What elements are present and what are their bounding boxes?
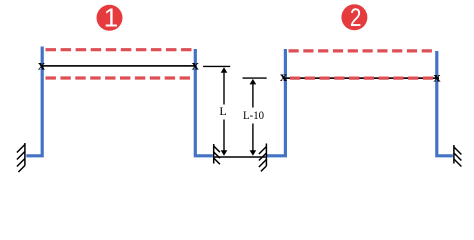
- wire at height L-10 (structure 2): [283, 77, 439, 79]
- svg-text:x: x: [38, 58, 45, 73]
- dashed line top (structure 2): [289, 49, 433, 52]
- svg-text:x: x: [434, 71, 441, 86]
- svg-text:x: x: [192, 58, 199, 73]
- post right (structure 1): [195, 49, 213, 156]
- dashed line top (structure 1): [46, 48, 192, 51]
- dimension arrow L (double-headed vertical): [221, 67, 228, 156]
- svg-text:L-10: L-10: [243, 108, 264, 122]
- dashed line bottom (structure 1): [46, 76, 191, 79]
- svg-text:L: L: [219, 104, 226, 118]
- dimension tick L: [203, 65, 230, 67]
- dimension arrow L-10 (double-headed vertical): [250, 79, 257, 156]
- dashed overlay on wire (structure 2): [290, 76, 433, 79]
- wall support S3 (bottom-left of structure 2): [259, 144, 267, 172]
- post left (structure 1): [26, 47, 42, 156]
- svg-text:1: 1: [104, 2, 118, 32]
- dimension tick L-10: [243, 77, 267, 79]
- post left (structure 2): [267, 49, 285, 156]
- badge 1: [97, 2, 123, 32]
- wall support S1 (bottom-left of structure 1): [17, 143, 25, 172]
- ground baseline between supports: [215, 156, 266, 158]
- wire at height L (structure 1): [42, 65, 197, 67]
- post right (structure 2): [437, 51, 453, 156]
- wall support S4 (bottom-right of structure 2): [454, 145, 462, 167]
- svg-text:x: x: [280, 70, 287, 85]
- svg-text:2: 2: [350, 4, 362, 32]
- wall support S2 (bottom-right of structure 1): [214, 144, 220, 164]
- badge 2: [341, 4, 367, 32]
